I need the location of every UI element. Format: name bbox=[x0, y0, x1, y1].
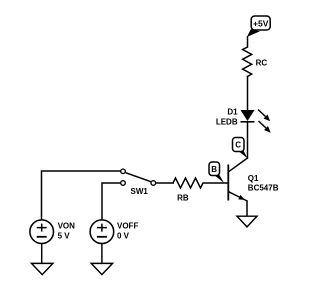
wire emitter to ground bbox=[246, 201, 248, 216]
ground (emitter) bbox=[237, 216, 257, 227]
wire SW1 pole to RB bbox=[156, 182, 173, 184]
wire VON to top rail bbox=[42, 171, 121, 220]
svg-text:VON: VON bbox=[58, 221, 76, 230]
svg-text:+5V: +5V bbox=[253, 18, 269, 28]
resistor RC bbox=[243, 37, 252, 77]
wire VOFF to bottom throw bbox=[102, 183, 121, 220]
svg-text:B: B bbox=[211, 165, 217, 174]
wire LED to RC bbox=[247, 77, 249, 111]
svg-text:LEDB: LEDB bbox=[216, 117, 238, 126]
svg-text:BC547B: BC547B bbox=[248, 184, 279, 193]
svg-text:C: C bbox=[235, 141, 241, 150]
wire VON to ground bbox=[41, 244, 43, 264]
node C label bbox=[233, 138, 245, 152]
node C callout pointer bbox=[238, 151, 248, 159]
svg-text:RB: RB bbox=[177, 194, 189, 203]
svg-text:VOFF: VOFF bbox=[117, 221, 138, 230]
LED arrow 2 bbox=[259, 121, 271, 133]
svg-text:5 V: 5 V bbox=[58, 232, 71, 241]
wire VOFF to ground bbox=[101, 244, 103, 264]
transistor Q1 BC547B bbox=[228, 158, 247, 201]
svg-text:0 V: 0 V bbox=[117, 232, 130, 241]
LED arrow 1 bbox=[258, 110, 270, 122]
power label +5V bbox=[251, 16, 270, 30]
power flag +5V pointer bbox=[247, 29, 260, 37]
svg-text:Q1: Q1 bbox=[248, 174, 259, 183]
node B callout pointer bbox=[214, 175, 224, 183]
ground (VOFF) bbox=[91, 263, 112, 274]
wire collector rail bbox=[247, 122, 249, 158]
switch SW1 bbox=[121, 169, 156, 185]
node B label bbox=[209, 162, 220, 176]
resistor RB bbox=[173, 178, 227, 188]
svg-text:D1: D1 bbox=[227, 108, 238, 117]
source VON bbox=[30, 220, 54, 244]
LED D1 bbox=[241, 110, 255, 122]
svg-text:RC: RC bbox=[256, 58, 268, 67]
svg-text:SW1: SW1 bbox=[131, 187, 149, 196]
source VOFF bbox=[90, 220, 114, 244]
ground (VON) bbox=[32, 263, 53, 274]
